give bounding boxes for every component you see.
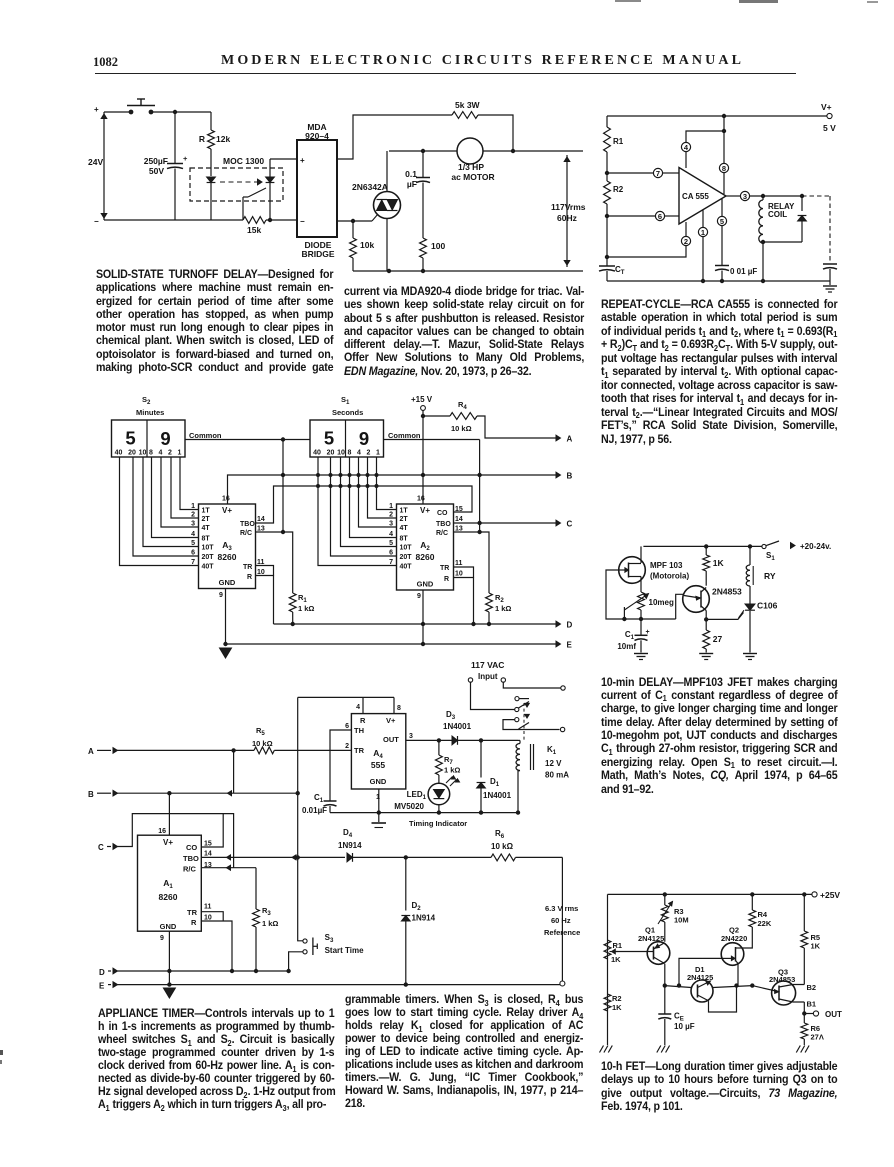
wire S1 common drop (479, 440, 481, 533)
svg-text:8: 8 (722, 164, 726, 173)
svg-text:4: 4 (389, 531, 393, 538)
wire A1 pin16 to B (168, 793, 170, 835)
svg-text:40T: 40T (202, 564, 215, 571)
svg-text:22K: 22K (758, 919, 772, 928)
capacitor 0.1uF (422, 151, 424, 177)
transistor D1 2N4125 (691, 980, 713, 1002)
node pin7 (605, 171, 608, 174)
resistor 15k (104, 219, 243, 221)
caption: 10-min delay (601, 676, 837, 797)
svg-text:1: 1 (376, 450, 380, 457)
svg-text:µF: µF (407, 179, 417, 189)
caption: solid-state turnoff delay, left column (96, 268, 333, 374)
schematic 1: solid-state turnoff delay (86, 86, 588, 286)
resistor R1 1k (289, 593, 296, 612)
wire input left to pole (471, 682, 515, 709)
svg-text:2N4853: 2N4853 (769, 975, 795, 984)
svg-text:MV5020: MV5020 (394, 802, 424, 811)
wire left rail (606, 116, 608, 127)
wire R1 wiper to Q1 base (616, 951, 648, 953)
thumbwheel switch S1 Seconds (310, 420, 384, 457)
svg-text:27Λ: 27Λ (811, 1033, 824, 1042)
svg-text:GND: GND (417, 580, 434, 589)
svg-text:2N4125: 2N4125 (638, 934, 664, 943)
dashed coupling arrow (220, 181, 257, 183)
wire bus A (477, 416, 556, 438)
svg-text:1 kΩ: 1 kΩ (444, 766, 460, 775)
svg-text:+25V: +25V (820, 890, 840, 900)
svg-text:6.3 V rms: 6.3 V rms (545, 904, 578, 913)
svg-text:B: B (88, 790, 94, 799)
wire Q2 gate (679, 958, 722, 985)
caption: repeat-cycle CA555 (601, 298, 837, 447)
svg-text:6: 6 (389, 550, 393, 557)
resistor 5k 3W (452, 112, 478, 119)
optional capacitor (823, 263, 837, 265)
svg-text:R2: R2 (612, 994, 622, 1003)
svg-text:R/C: R/C (183, 865, 197, 874)
svg-text:4T: 4T (400, 525, 409, 532)
svg-text:8260: 8260 (416, 552, 435, 562)
svg-text:12 V: 12 V (545, 759, 562, 768)
caption: solid-state turnoff delay, right column (344, 285, 584, 378)
measure 117Vrms 60Hz (566, 155, 568, 267)
diode D1 1N4001 (479, 739, 482, 742)
svg-text:10mf: 10mf (617, 642, 636, 651)
resistor R5 1K (803, 894, 805, 931)
svg-text:9: 9 (160, 428, 170, 449)
dashed relay actuation link (523, 703, 525, 742)
svg-text:V+: V+ (386, 716, 396, 725)
relay coil (762, 196, 764, 200)
svg-text:1 kΩ: 1 kΩ (262, 919, 278, 928)
resistor R6 10k (491, 854, 516, 861)
svg-text:3: 3 (743, 192, 747, 201)
svg-text:MPF 103: MPF 103 (650, 561, 683, 570)
svg-text:2N4220: 2N4220 (721, 934, 747, 943)
wire A1 TBO line (201, 856, 345, 858)
svg-text:Input: Input (478, 672, 498, 681)
wire top rail (104, 111, 129, 113)
svg-text:10meg: 10meg (649, 598, 674, 607)
header rule (95, 73, 796, 75)
adjustable resistor R3 10M (664, 894, 666, 905)
svg-text:5 V: 5 V (823, 123, 836, 133)
wire left rail (607, 894, 609, 1045)
svg-text:TBO: TBO (183, 854, 199, 863)
svg-text:2T: 2T (400, 516, 409, 523)
diode across relay (800, 194, 803, 197)
LED of optoisolator (207, 177, 216, 183)
svg-text:V+: V+ (163, 838, 173, 847)
svg-text:5k 3W: 5k 3W (455, 100, 481, 110)
svg-text:9: 9 (359, 428, 369, 449)
wire V+ top rail (607, 115, 827, 117)
svg-text:R1: R1 (298, 593, 307, 604)
svg-text:16: 16 (222, 496, 230, 503)
svg-text:C1: C1 (625, 630, 635, 641)
wire relay bottom (763, 241, 802, 243)
capacitor 0.01uF (715, 265, 729, 267)
diode D2 1N914 (405, 857, 407, 910)
svg-text:2T: 2T (202, 516, 211, 523)
svg-text:TH: TH (354, 726, 364, 735)
svg-text:GND: GND (160, 922, 177, 931)
svg-text:8: 8 (149, 450, 153, 457)
svg-text:80 mA: 80 mA (545, 771, 569, 780)
terminal reference output (560, 981, 565, 986)
svg-text:BRIDGE: BRIDGE (301, 249, 334, 259)
ground CE (657, 1046, 661, 1053)
svg-text:R4: R4 (458, 400, 467, 411)
wire bottom rail (607, 280, 830, 282)
svg-text:10T: 10T (400, 545, 413, 552)
svg-text:3: 3 (389, 521, 393, 528)
svg-text:7: 7 (191, 559, 195, 566)
svg-text:40: 40 (313, 450, 321, 457)
diode D4 1N914 (347, 853, 353, 862)
svg-text:C: C (98, 843, 104, 852)
caption: 10-h FET (601, 1060, 837, 1114)
wire A3 GND to E (225, 589, 227, 645)
svg-text:Reference: Reference (544, 928, 580, 937)
svg-text:RY: RY (764, 571, 776, 581)
svg-text:5: 5 (389, 540, 393, 547)
wire 24V left rail (103, 112, 105, 220)
wire 5k to motor line (478, 115, 513, 151)
wire A2 GND to E (422, 590, 424, 644)
svg-text:TR: TR (440, 565, 449, 572)
ground optional (829, 281, 831, 285)
svg-text:D1: D1 (490, 777, 500, 788)
svg-text:10M: 10M (674, 916, 689, 925)
svg-text:MOC 1300: MOC 1300 (223, 156, 264, 166)
wire bottom rail right section (353, 270, 583, 272)
svg-text:R: R (444, 576, 449, 583)
pin 1 (702, 210, 704, 227)
svg-text:6: 6 (658, 212, 662, 221)
svg-text:+: + (183, 154, 188, 163)
svg-text:D4: D4 (343, 828, 353, 839)
svg-text:9: 9 (160, 935, 164, 942)
relay contact pair 2 (515, 718, 519, 722)
wire bus D upper (274, 623, 557, 625)
FET Q2 2N4220 (721, 943, 744, 966)
wire S1 common (384, 439, 480, 441)
svg-text:2N4125: 2N4125 (687, 973, 713, 982)
svg-text:S1: S1 (341, 395, 350, 406)
svg-text:TR: TR (354, 746, 365, 755)
svg-text:24V: 24V (88, 157, 103, 167)
svg-text:3: 3 (191, 521, 195, 528)
svg-text:15: 15 (455, 506, 463, 513)
svg-text:1N914: 1N914 (338, 841, 362, 850)
resistor 10k (352, 221, 354, 238)
svg-text:CO: CO (186, 843, 197, 852)
svg-text:1K: 1K (713, 558, 725, 568)
terminal +25V (812, 892, 817, 897)
svg-text:1K: 1K (612, 1003, 622, 1012)
svg-text:R2: R2 (613, 185, 624, 194)
wire Q2 source down (737, 964, 739, 986)
svg-text:6: 6 (345, 723, 349, 730)
wire bridge + output to 5k resistor (337, 115, 452, 159)
svg-text:+15 V: +15 V (411, 395, 433, 404)
svg-text:S1: S1 (766, 551, 775, 562)
svg-text:10 µF: 10 µF (674, 1022, 695, 1031)
svg-text:TBO: TBO (436, 521, 451, 528)
svg-text:9: 9 (417, 593, 421, 600)
svg-text:16: 16 (417, 496, 425, 503)
svg-text:OUT: OUT (825, 1010, 842, 1019)
svg-text:R: R (191, 918, 197, 927)
svg-text:5: 5 (125, 428, 135, 449)
node SCR cathode (268, 218, 271, 221)
svg-text:0.01µF: 0.01µF (302, 806, 327, 815)
resistor R3 1k (253, 909, 260, 927)
svg-text:S3: S3 (325, 933, 334, 944)
photo-SCR of optoisolator (266, 177, 275, 183)
wire gate loop (606, 570, 624, 619)
wire bus B (228, 475, 557, 504)
ground A1 (163, 988, 175, 998)
svg-text:+20-24v.: +20-24v. (800, 542, 831, 551)
svg-text:A4: A4 (373, 748, 383, 760)
svg-text:10 kΩ: 10 kΩ (491, 842, 514, 851)
optoisolator MOC 1300 dashed box (190, 168, 283, 201)
triac 2N6342A (374, 192, 401, 219)
ground 27 (699, 653, 713, 655)
caption: appliance timer, left column (98, 1007, 334, 1111)
wire bus E upper (226, 643, 557, 645)
svg-text:Common: Common (189, 431, 222, 440)
svg-text:1/3 HP: 1/3 HP (458, 162, 484, 172)
wire A3 TR R join (256, 566, 274, 576)
svg-text:11: 11 (455, 560, 463, 567)
wire A1 GND (168, 931, 170, 984)
LED1 MV5020 timing indicator (438, 775, 440, 784)
svg-text:8T: 8T (400, 536, 409, 543)
wire A1 TR R join (201, 912, 223, 921)
svg-text:R: R (199, 134, 205, 144)
svg-text:60Hz: 60Hz (557, 213, 577, 223)
svg-text:1: 1 (178, 450, 182, 457)
svg-text:3: 3 (409, 733, 413, 740)
svg-text:B2: B2 (807, 983, 817, 992)
svg-text:117 VAC: 117 VAC (471, 660, 504, 670)
svg-text:+: + (94, 105, 99, 114)
svg-text:CO: CO (437, 510, 448, 517)
svg-text:R5: R5 (256, 726, 265, 737)
resistor R2 1k (486, 593, 493, 612)
switch S3 start time (298, 935, 303, 941)
svg-text:5: 5 (720, 217, 724, 226)
ground SCR (743, 653, 757, 655)
potentiometer 10meg (638, 592, 645, 610)
svg-text:ac MOTOR: ac MOTOR (451, 172, 494, 182)
svg-text:GND: GND (219, 578, 236, 587)
svg-text:A: A (88, 747, 94, 756)
capacitor 250uF 50V (174, 112, 176, 163)
svg-text:5: 5 (324, 428, 334, 449)
svg-text:B1: B1 (807, 1000, 817, 1009)
svg-text:8260: 8260 (159, 892, 178, 902)
svg-text:1N914: 1N914 (412, 914, 436, 923)
svg-text:100: 100 (431, 241, 445, 251)
schematic 2: repeat-cycle CA555 astable (598, 95, 894, 305)
svg-text:2: 2 (168, 450, 172, 457)
svg-text:920–4: 920–4 (305, 131, 329, 141)
svg-text:E: E (567, 641, 573, 650)
ground R6 (796, 1046, 800, 1053)
wire pins 4-8 bracket (298, 696, 394, 698)
pin 5 (721, 198, 723, 216)
resistor R2 (604, 181, 611, 204)
svg-text:2: 2 (191, 512, 195, 519)
wire pin 6 (607, 215, 655, 217)
svg-text:8: 8 (348, 450, 352, 457)
wire UJT emitter (676, 594, 684, 619)
node emitter junction line (663, 984, 666, 987)
resistor 100 (420, 238, 427, 258)
svg-text:Seconds: Seconds (332, 408, 363, 417)
wire bottom node line (624, 618, 675, 620)
svg-text:8: 8 (397, 705, 401, 712)
timer A4 555 (351, 714, 405, 789)
wire bus C from A2 TBO (454, 522, 557, 524)
svg-text:8260: 8260 (218, 552, 237, 562)
pushbutton switch (129, 110, 133, 114)
svg-text:C106: C106 (757, 601, 778, 611)
svg-text:A: A (567, 435, 573, 444)
wire TBO bus to right rail (353, 856, 492, 858)
resistor R2 1K (604, 994, 611, 1011)
svg-text:R/C: R/C (240, 530, 252, 537)
svg-text:12k: 12k (216, 134, 230, 144)
pin 4 (685, 152, 687, 168)
svg-text:C: C (567, 520, 573, 529)
pin 6 (655, 211, 664, 220)
svg-text:V+: V+ (222, 506, 232, 515)
svg-text:2N6342A: 2N6342A (352, 182, 388, 192)
svg-text:1N4001: 1N4001 (483, 791, 512, 800)
svg-text:−: − (94, 217, 99, 226)
svg-text:+: + (646, 629, 650, 636)
svg-text:6: 6 (191, 550, 195, 557)
svg-text:R1: R1 (613, 941, 623, 950)
svg-text:50V: 50V (149, 166, 164, 176)
pin 4 reset (362, 697, 364, 713)
SCR C106 (749, 586, 751, 604)
wire 555 GND (378, 789, 380, 813)
svg-text:10T: 10T (202, 545, 215, 552)
wire bridge - output to triac gate (337, 220, 372, 222)
svg-text:10 kΩ: 10 kΩ (252, 739, 273, 748)
UJT Q3 2N4853 (772, 981, 796, 1005)
svg-text:250µF: 250µF (144, 156, 168, 166)
ground 555 (378, 813, 380, 822)
schematic 3: appliance timer (86, 392, 592, 1008)
svg-text:10: 10 (455, 571, 463, 578)
relay RY (749, 546, 751, 565)
wire input right to contact (503, 682, 560, 688)
terminal V+ 5V (827, 113, 832, 118)
svg-text:1T: 1T (202, 508, 211, 515)
relay coil K1 (518, 739, 520, 741)
svg-text:V+: V+ (821, 102, 832, 112)
wire top rail (608, 893, 812, 895)
terminal 117VAC right (501, 678, 505, 682)
svg-text:TBO: TBO (240, 521, 255, 528)
svg-text:20: 20 (327, 450, 335, 457)
ground left (600, 1046, 604, 1053)
svg-text:1 kΩ: 1 kΩ (298, 604, 314, 613)
svg-text:A1: A1 (163, 878, 173, 890)
svg-text:9: 9 (219, 592, 223, 599)
svg-text:2: 2 (345, 743, 349, 750)
svg-text:A3: A3 (222, 540, 232, 552)
svg-text:R1: R1 (613, 137, 624, 146)
resistor R4 10k (423, 415, 450, 417)
wire R4 to Q2 drain (743, 927, 752, 948)
UJT 2N4853 (683, 586, 710, 613)
node relay top (761, 194, 764, 197)
wire pin 7 (607, 172, 653, 174)
svg-text:20T: 20T (400, 554, 413, 561)
counter A1 8260 (138, 835, 202, 931)
svg-text:555: 555 (371, 760, 385, 770)
counter A3 8260 (199, 504, 256, 589)
svg-text:14: 14 (204, 851, 212, 858)
JFET MPF103 (619, 557, 646, 584)
counter A2 8260 (397, 504, 454, 590)
svg-text:4T: 4T (202, 525, 211, 532)
svg-text:7: 7 (389, 559, 393, 566)
resistor 1K (705, 546, 707, 555)
svg-text:10 kΩ: 10 kΩ (451, 424, 472, 433)
dashed optional capacitor branch (802, 195, 830, 197)
svg-text:Start Time: Start Time (325, 946, 365, 955)
svg-text:D2: D2 (412, 901, 422, 912)
wire UJT B1 to gate line (705, 611, 707, 620)
resistor R7 1k (438, 740, 440, 755)
svg-text:1: 1 (701, 228, 705, 237)
svg-text:4: 4 (191, 531, 195, 538)
svg-text:E: E (99, 982, 105, 991)
svg-text:Common: Common (388, 431, 421, 440)
svg-text:2: 2 (389, 512, 393, 519)
wire S2 common (185, 439, 310, 441)
wire S2 common drop to R/C (282, 440, 284, 533)
svg-text:40: 40 (115, 450, 123, 457)
svg-text:5: 5 (191, 540, 195, 547)
wires S2 digit outputs to A3 pins (120, 457, 199, 566)
svg-text:1: 1 (191, 503, 195, 510)
wire A-B tie (233, 750, 235, 793)
resistor R1 (604, 127, 611, 152)
resistor R4 22K (751, 894, 753, 910)
capacitor C1 10mf (635, 634, 648, 636)
svg-text:1K: 1K (811, 942, 821, 951)
pin 3 output (726, 195, 740, 197)
svg-text:27: 27 (713, 634, 723, 644)
svg-text:D: D (99, 968, 105, 977)
transistor Q1 2N4125 (647, 942, 670, 965)
svg-text:10k: 10k (360, 240, 374, 250)
thumbwheel switch S2 Minutes (112, 420, 186, 457)
schematic 4: 10-min delay MPF103 JFET (598, 535, 894, 667)
svg-text:R3: R3 (262, 906, 271, 917)
